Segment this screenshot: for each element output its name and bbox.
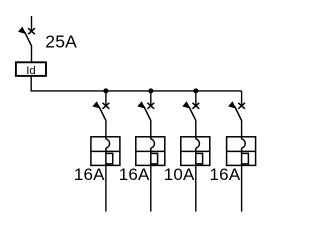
svg-text:16A: 16A bbox=[74, 165, 105, 184]
svg-text:25A: 25A bbox=[45, 31, 77, 51]
svg-text:10A: 10A bbox=[164, 165, 195, 184]
svg-text:16A: 16A bbox=[119, 165, 150, 184]
svg-text:Id: Id bbox=[26, 65, 35, 77]
svg-text:16A: 16A bbox=[210, 165, 241, 184]
